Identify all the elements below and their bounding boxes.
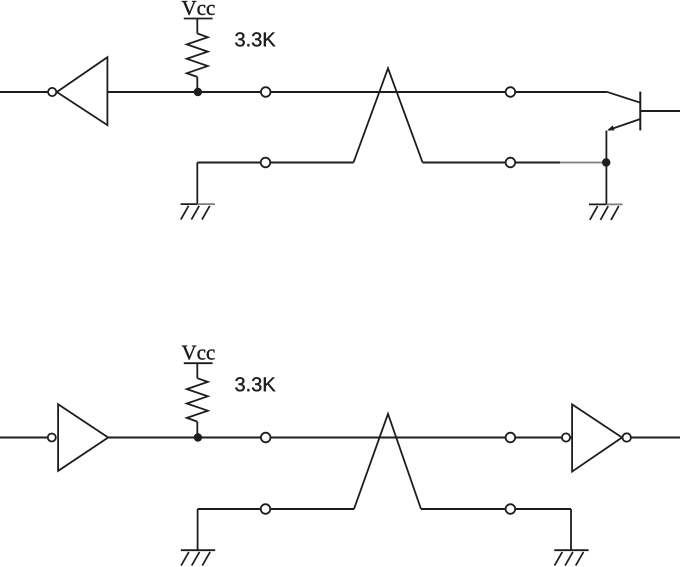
wire: lower net left segment (bottom)	[198, 508, 354, 510]
inverter U1 output bubble	[48, 88, 56, 96]
wire: lower net down to ground G1	[196, 163, 198, 205]
wire: lower net gray segment to node B	[560, 162, 603, 164]
ground G2 bar	[589, 203, 606, 205]
connector pin circle (bottom lower net, left)	[261, 504, 271, 514]
twisted-pair crossover of lower net over top net	[354, 68, 423, 162]
value label 3.3K (R2)	[235, 377, 275, 391]
connector pin circle (main net, left)	[261, 433, 271, 443]
connector pin circle (bottom lower net, right)	[506, 504, 516, 514]
ground G2 bar right (faint)	[606, 203, 622, 205]
transistor Q1 base lead to right edge	[640, 110, 680, 112]
ground G2 slash 2	[600, 206, 608, 220]
wire: lower net right segment (bottom)	[421, 508, 571, 510]
connector pin circle (main net, middle)	[506, 433, 516, 443]
ground G3 bar	[181, 549, 215, 551]
wire: lower net down to ground G4	[570, 509, 572, 550]
ground G4 bar	[554, 549, 588, 551]
wire: lower net down to ground G3	[197, 509, 199, 550]
transistor Q1 collector lead	[607, 92, 641, 103]
Vcc power symbol bar	[184, 18, 213, 20]
inverter U3 output bubble	[623, 433, 631, 441]
ground G1 slash 1	[181, 206, 189, 220]
ground G4 slash 3	[576, 552, 584, 566]
connector pin circle (top net, left)	[261, 87, 271, 97]
ground G1 bar	[181, 203, 198, 205]
wire: Vcc bar to resistor R1	[196, 19, 198, 34]
node A junction dot (R1 / U1 / line)	[194, 88, 202, 96]
node B junction dot (emitter / lower net)	[602, 158, 610, 166]
ground G1 bar right (faint)	[197, 203, 215, 205]
node C junction dot (R2 / main net)	[194, 433, 202, 441]
wire: resistor R2 to node C	[196, 422, 198, 438]
transistor Q1 emitter arrowhead	[607, 125, 614, 130]
wire: lower net left segment	[197, 162, 353, 164]
ground G3 slash 3	[202, 552, 210, 566]
wire: lower net right segment	[423, 162, 560, 164]
connector pin circle (main net, at U3 input)	[562, 433, 570, 441]
inverter U1 triangle (points left)	[57, 57, 108, 125]
connector pin circle (lower net, left)	[261, 158, 271, 168]
wire: U1 input to transistor Q1 collector run (top net)	[107, 91, 606, 93]
inverter U3 triangle (points right)	[572, 404, 622, 471]
ground G3 slash 1	[181, 552, 189, 566]
connector pin circle (lower net, right)	[506, 158, 516, 168]
resistor R1 zigzag	[187, 34, 208, 77]
wire: Q1 emitter down to node B and ground G2	[605, 131, 607, 205]
value label 3.3K (R1)	[235, 32, 275, 46]
connector pin circle (top net, right)	[506, 87, 516, 97]
Vcc power symbol label	[182, 1, 215, 15]
twisted-pair crossover of lower net over main net (bottom)	[354, 414, 421, 509]
wire: left input to inverter U1 output bubble	[0, 91, 48, 93]
ground G1 slash 3	[202, 206, 210, 220]
ground G4 slash 2	[565, 552, 573, 566]
resistor R2 zigzag	[187, 378, 208, 421]
ground G1 slash 2	[191, 206, 199, 220]
buffer U2 input bubble	[48, 434, 56, 442]
Vcc power symbol bar (bottom)	[184, 362, 213, 364]
ground G3 slash 2	[192, 552, 200, 566]
wire: U3 output to right edge	[631, 437, 680, 439]
Vcc power symbol label (bottom)	[182, 346, 215, 360]
ground G2 slash 1	[590, 206, 598, 220]
wire: resistor R1 to node A	[196, 77, 198, 92]
wire: Vcc bar to resistor R2	[196, 363, 198, 378]
transistor Q1 base bar	[639, 92, 641, 131]
wire: left input to buffer U2	[0, 437, 48, 439]
transistor Q1 emitter lead	[609, 119, 641, 130]
buffer U2 triangle (points right)	[58, 404, 108, 471]
ground G4 slash 1	[555, 552, 563, 566]
ground G2 slash 3	[611, 206, 619, 220]
wire: U2 output across to inverter U3 (main net)	[108, 437, 572, 439]
